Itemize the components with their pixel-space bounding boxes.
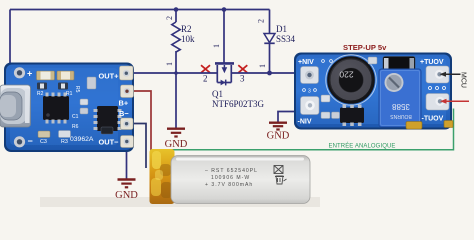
green analog line <box>151 109 454 150</box>
wire main rail left (OUT+ to Q1) <box>132 72 217 74</box>
svg-text:– RST 652540PL: – RST 652540PL <box>205 168 258 174</box>
svg-text:3: 3 <box>308 89 311 95</box>
wire top rail <box>10 9 270 11</box>
gold corner part <box>444 121 453 128</box>
TP4056 IC <box>43 96 69 120</box>
svg-text:MCU: MCU <box>460 72 467 88</box>
protection IC <box>97 106 118 131</box>
svg-text:R2: R2 <box>37 91 44 97</box>
svg-text:+: + <box>27 69 32 79</box>
svg-text:03962A: 03962A <box>70 136 94 143</box>
inductor 220 <box>328 57 375 104</box>
svg-text:+ 3.7V 800mAh: + 3.7V 800mAh <box>205 182 253 188</box>
battery kapton tape <box>150 149 175 204</box>
svg-text:3588: 3588 <box>392 102 410 111</box>
svg-text:R6: R6 <box>72 124 79 130</box>
svg-text:2: 2 <box>203 74 208 84</box>
silk dots top <box>322 60 325 63</box>
svg-text:2: 2 <box>165 16 174 20</box>
mid SMDs <box>80 99 88 105</box>
inductor silk circle <box>326 55 376 105</box>
svg-text:GND: GND <box>115 190 138 201</box>
svg-text:220: 220 <box>339 70 353 80</box>
trimmer gold contact <box>406 122 422 130</box>
svg-text:R2: R2 <box>181 24 192 34</box>
svg-text:SS34: SS34 <box>276 34 296 44</box>
MCU arrow red (to VOUT-) <box>440 99 469 104</box>
battery shadow <box>40 197 320 207</box>
SMD diode top right <box>383 57 415 71</box>
mounting hole bottom-left <box>14 136 25 147</box>
pad VIN- <box>301 97 320 115</box>
node rail crossing <box>174 71 178 75</box>
svg-text:D1: D1 <box>276 24 287 34</box>
micro USB connector <box>0 85 31 127</box>
pad B- <box>121 118 134 130</box>
pad OUT+ <box>120 66 134 80</box>
ground GND2 <box>267 123 290 142</box>
svg-text:+NIV: +NIV <box>298 59 314 66</box>
node R2 top <box>174 7 179 12</box>
svg-text:1: 1 <box>165 62 174 66</box>
LED 1 <box>37 71 55 80</box>
wire B+ red to battery <box>133 91 151 152</box>
node D1 bottom <box>267 71 272 76</box>
top small SMD parts <box>37 83 47 90</box>
no-connect X pin 2 <box>201 65 210 73</box>
wire B- navy to battery <box>131 124 146 169</box>
svg-text:ENTRÉE ANALOGIQUE: ENTRÉE ANALOGIQUE <box>328 142 395 149</box>
svg-text:OUT+: OUT+ <box>99 72 120 81</box>
trimmer potentiometer <box>379 69 421 127</box>
svg-text:GND: GND <box>267 131 290 142</box>
svg-text:+TUOV: +TUOV <box>420 59 444 66</box>
svg-text:-NIV: -NIV <box>298 119 312 126</box>
svg-text:-TUOV: -TUOV <box>422 116 444 123</box>
pad VOUT- <box>426 94 449 111</box>
mounting hole top-left <box>14 67 25 78</box>
wire gate vertical <box>223 10 225 63</box>
svg-text:10k: 10k <box>181 34 195 44</box>
pad VIN+ <box>301 67 319 84</box>
diode D1 SS34 <box>257 10 296 74</box>
ground GND3 <box>115 180 138 202</box>
ground GND1 <box>165 123 188 150</box>
svg-text:B−: B− <box>119 109 129 118</box>
LED 2 <box>57 71 74 80</box>
svg-text:GND: GND <box>165 139 188 150</box>
svg-text:−: − <box>28 136 33 146</box>
pad B+ <box>121 85 134 98</box>
svg-text:STEP-UP 5v: STEP-UP 5v <box>343 43 387 52</box>
TP4056 charger module <box>0 63 134 153</box>
step-up module PCB <box>294 53 453 130</box>
pad VOUT+ <box>426 66 449 83</box>
svg-text:Q1: Q1 <box>212 89 223 99</box>
bottom SMD row <box>38 131 50 138</box>
pad OUT- <box>121 136 134 148</box>
resistor R2 <box>165 10 195 74</box>
battery recycle symbols <box>274 166 287 185</box>
svg-text:R3: R3 <box>61 139 68 145</box>
wire main rail right (Q1 to VIN+) <box>231 72 299 74</box>
svg-text:3: 3 <box>240 74 245 84</box>
SOT23-6 converter IC <box>340 108 364 124</box>
svg-text:1: 1 <box>258 64 267 68</box>
svg-text:2: 2 <box>257 19 266 23</box>
svg-text:C1: C1 <box>72 114 79 120</box>
wire OUT- down to GND3 <box>126 147 128 179</box>
transistor Q1 NTF6P02T3G <box>212 63 265 109</box>
battery body <box>171 156 310 204</box>
wire VIN- to GND2 <box>278 112 299 122</box>
svg-text:NTF6P02T3G: NTF6P02T3G <box>212 99 265 109</box>
wire left drop to TP4056 <box>9 10 11 64</box>
wire R2 bottom to GND1 stem <box>175 73 177 123</box>
svg-text:R5: R5 <box>74 86 80 93</box>
svg-text:1: 1 <box>212 44 221 48</box>
left SMD resistors <box>321 95 330 102</box>
MCU arrow black (to VOUT+) <box>440 72 461 77</box>
svg-text:100906 M-W: 100906 M-W <box>211 175 250 181</box>
svg-text:OUT−: OUT− <box>99 138 120 147</box>
svg-text:BOURNS: BOURNS <box>390 113 412 119</box>
svg-text:C3: C3 <box>40 139 47 145</box>
svg-text:B+: B+ <box>119 99 129 108</box>
node gate top <box>222 7 227 12</box>
no-connect X pin 3 <box>238 65 247 73</box>
